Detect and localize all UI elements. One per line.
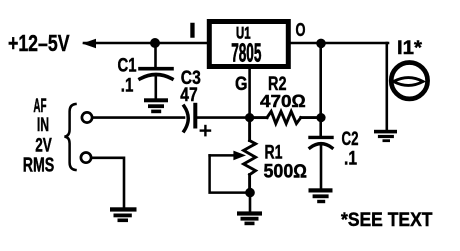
wire top rail left (arrow to U1 input) [84, 42, 207, 45]
ground (R1) [237, 211, 262, 225]
ground (AF input) [110, 207, 137, 222]
svg-text:*SEE TEXT: *SEE TEXT [341, 209, 433, 231]
wire C2 bottom lead [320, 146, 323, 189]
wire R1 to ground [249, 193, 252, 212]
brace AF input [64, 104, 75, 170]
svg-text:G: G [235, 74, 248, 95]
wire C1 bottom lead [155, 77, 158, 99]
wire C3 to node G [197, 116, 246, 119]
svg-text:C1: C1 [118, 56, 137, 77]
wire lamp branch vertical [385, 43, 388, 130]
capacitor C3 [184, 105, 195, 131]
svg-text:I: I [190, 20, 195, 42]
terminal AF lower [81, 153, 91, 163]
arrow supply (points left) [82, 39, 96, 49]
node output junction [316, 39, 326, 49]
svg-text:500Ω: 500Ω [264, 161, 308, 182]
svg-text:RMS: RMS [23, 154, 55, 177]
svg-text:O: O [296, 20, 306, 40]
capacitor C2 [310, 137, 332, 147]
svg-text:7805: 7805 [231, 38, 261, 68]
ground (lamp) [374, 130, 397, 142]
svg-text:.1: .1 [121, 75, 134, 96]
wire AF lower terminal to ground [92, 158, 125, 208]
resistor R1 (pot) [244, 118, 256, 192]
wire output branch vertical [319, 43, 322, 137]
lamp I1 [391, 62, 427, 98]
node R2 right junction [316, 113, 325, 122]
node R1 bottom junction [245, 188, 255, 198]
svg-text:470Ω: 470Ω [260, 91, 306, 111]
op-amp U1 7805 regulator box [209, 22, 288, 67]
R1 wiper arrow [210, 151, 246, 161]
svg-text:I1*: I1* [397, 38, 423, 59]
node input junction [150, 38, 160, 48]
svg-text:C2: C2 [342, 129, 359, 150]
wire R1 wiper feedback loop [210, 155, 246, 192]
ground (C2) [309, 188, 333, 203]
svg-text:47: 47 [180, 85, 197, 106]
resistor R2 [254, 111, 317, 123]
terminal AF upper [82, 112, 92, 122]
svg-text:IN: IN [37, 114, 49, 136]
svg-text:.1: .1 [344, 149, 357, 170]
C3 plus polarity mark [201, 126, 210, 135]
wire G pin vertical [248, 68, 251, 118]
wire top rail right (U1 output to lamp branch) [291, 42, 388, 45]
capacitor C1 [140, 69, 172, 79]
node G junction [245, 113, 254, 122]
ground (C1) [144, 98, 168, 113]
wire C1 top lead [154, 43, 157, 67]
wire AF input to C3 [92, 116, 184, 119]
svg-text:+12–5V: +12–5V [8, 30, 70, 56]
